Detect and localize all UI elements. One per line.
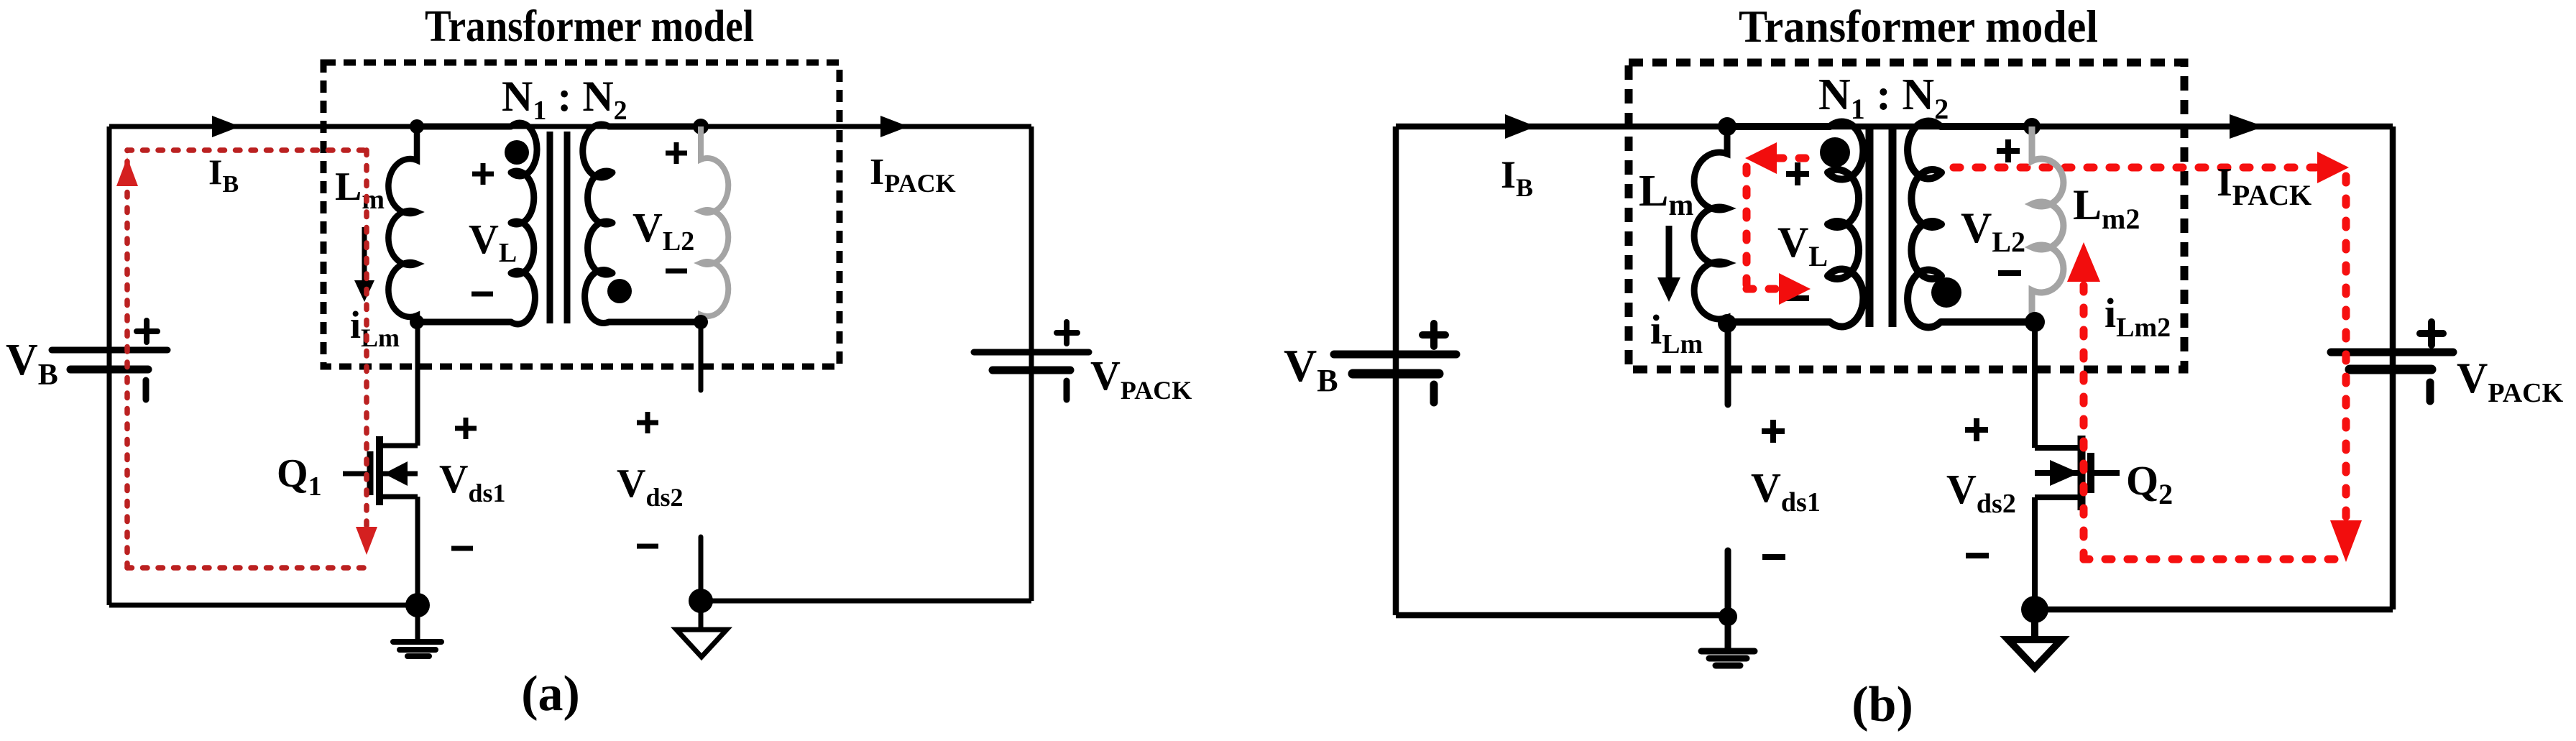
battery VPACK (a) plus sign xyxy=(1057,322,1077,344)
battery VPACK (a) minus tick xyxy=(1064,381,1070,400)
wire: Q2 drain vertical (b) xyxy=(2032,322,2038,448)
wire: top rail (b) xyxy=(1396,124,2393,130)
arrow iLm (b) xyxy=(1666,226,1673,279)
label + VL (b) xyxy=(1786,162,1809,185)
battery VB (b) minus tick xyxy=(1430,385,1438,402)
label + Vds2 (b) xyxy=(1965,418,1988,441)
wire: Vds2 upper stub (a) xyxy=(699,322,704,390)
wire: VPACK vertical (b) xyxy=(2390,126,2396,609)
label minus VL (b) xyxy=(1786,295,1809,301)
label minus VL2 (a) xyxy=(666,269,687,274)
wire: Q1 drain vertical (a) xyxy=(415,322,420,446)
node: secondary bottom (b) xyxy=(2025,312,2045,332)
svg-text:N1 : N2: N1 : N2 xyxy=(1818,70,1949,125)
transistor Q1 mosfet (a) xyxy=(343,436,418,505)
battery VB (a) plates xyxy=(52,350,167,369)
wire: VPACK vertical (a) xyxy=(1029,126,1034,601)
red dashed mini loop in primary (b) xyxy=(1747,158,1809,289)
label + VL (a) xyxy=(472,163,494,185)
ground (earth type) Q1 (a) xyxy=(393,605,441,656)
svg-text:Transformer model: Transformer model xyxy=(1739,1,2098,52)
svg-text:(a): (a) xyxy=(521,666,580,722)
dot: primary polarity (a) xyxy=(505,140,529,165)
arrow on Q2 body (b) xyxy=(2050,460,2079,486)
node: bottom primary junction (b) xyxy=(1718,314,1736,333)
red dashed secondary loop top segment (b) xyxy=(1954,164,2316,172)
dashed box: transformer model (b) xyxy=(1629,63,2184,369)
node: secondary top (a) xyxy=(693,119,709,134)
arrow iLm (a) xyxy=(362,227,367,282)
label minus Vds2 (a) xyxy=(637,544,658,549)
red arrow left in mini loop (b) xyxy=(1745,142,1777,174)
arrow IB (b) xyxy=(1505,114,1536,139)
red dashed secondary loop (b) xyxy=(2084,176,2346,559)
node: bottom primary junction (a) xyxy=(410,315,424,329)
wire: left vertical from VB (b) xyxy=(1393,126,1399,615)
wire: left vertical from VB (a) xyxy=(107,126,112,605)
battery VPACK (a) plates xyxy=(974,352,1089,370)
transformer core (b) xyxy=(1869,126,1892,327)
battery VPACK (b) plus sign xyxy=(2420,322,2443,345)
dot: secondary polarity (b) xyxy=(1931,277,1961,308)
node: Vds1 ground junction (b) xyxy=(1719,607,1737,626)
red arrow up near VB (a) xyxy=(116,157,138,186)
wire: bottom right rail (a) xyxy=(701,599,1031,604)
wire: Q2 source vertical (b) xyxy=(2032,497,2038,609)
gray magnetizing inductor Lm2 (b) xyxy=(2032,126,2064,322)
battery VB (b) plus sign xyxy=(1422,323,1445,346)
arrow IPACK (a) xyxy=(880,116,908,137)
dot: secondary polarity (a) xyxy=(607,279,632,303)
wire: top rail (a) xyxy=(109,124,1031,129)
transformer core (a) xyxy=(550,132,567,323)
transformer secondary winding N2 (a) xyxy=(583,124,701,323)
red arrow down right loop (b) xyxy=(2330,520,2362,562)
wire: Vds2 lower stub (a) xyxy=(699,537,704,601)
arrow IPACK (b) xyxy=(2230,114,2264,139)
red arrow right top loop (b) xyxy=(2317,152,2349,183)
node: top primary junction (b) xyxy=(1718,117,1736,136)
red arrow down near Q1 (a) xyxy=(356,527,377,555)
label + Vds1 (b) xyxy=(1762,420,1785,443)
transistor Q2 mosfet (b) xyxy=(2035,436,2120,510)
transformer secondary winding N2 (b) xyxy=(1908,121,2032,328)
arrow IB (a) xyxy=(212,116,240,137)
battery VB (a) minus tick xyxy=(143,380,149,400)
node: Q2 source ground junction (b) xyxy=(2021,596,2048,623)
dashed box: transformer model (a) xyxy=(323,63,839,367)
ground (earth type) (b) xyxy=(1701,617,1754,666)
label minus Vds1 (a) xyxy=(451,546,473,551)
wire: Q1 source vertical (a) xyxy=(415,497,420,605)
label minus VL2 (b) xyxy=(1998,270,2021,276)
label + VL2 (b) xyxy=(1997,139,2020,162)
label + Vds1 (a) xyxy=(455,418,477,439)
battery VB (a) plus sign xyxy=(137,321,157,342)
battery VPACK (b) minus tick xyxy=(2426,382,2434,401)
label minus Vds1 (b) xyxy=(1762,554,1785,560)
wire: bottom right rail (b) xyxy=(2035,607,2393,613)
node: secondary ground junction (a) xyxy=(689,589,713,613)
red arrow right in mini loop (b) xyxy=(1779,273,1811,305)
label + Vds2 (a) xyxy=(637,412,658,433)
transformer primary winding N1 (b) xyxy=(1727,121,1863,326)
node: secondary bottom (a) xyxy=(694,315,708,329)
label minus VL (a) xyxy=(471,292,493,297)
ground (arrow type) secondary (a) xyxy=(699,601,704,628)
wire: bottom left rail (a) xyxy=(109,603,418,608)
inductor Lm (a) xyxy=(388,126,417,322)
svg-text:N1 : N2: N1 : N2 xyxy=(502,73,627,126)
label minus Vds2 (b) xyxy=(1966,553,1989,558)
wire: Vds1 upper stub (b) xyxy=(1725,323,1731,405)
node: secondary top (b) xyxy=(2023,118,2041,135)
ground (arrow type) Q2 (b) xyxy=(2031,609,2038,637)
inductor Lm (b) xyxy=(1694,126,1727,323)
arrow on Q1 body (a) xyxy=(384,461,408,486)
battery VB (b) plates xyxy=(1334,354,1456,374)
svg-text:Transformer model: Transformer model xyxy=(425,2,754,51)
battery VPACK (b) plates xyxy=(2331,352,2453,369)
label + VL2 (a) xyxy=(666,142,687,164)
node: Q1 source ground junction (a) xyxy=(405,593,430,617)
node: top primary junction (a) xyxy=(410,119,424,134)
svg-text:(b): (b) xyxy=(1851,677,1913,732)
red dashed current loop (a) xyxy=(127,150,367,568)
dot: primary polarity (b) xyxy=(1820,137,1850,167)
wire: bottom left rail (b) xyxy=(1396,612,1728,619)
wire: Vds1 lower stub (b) xyxy=(1725,551,1731,615)
gray magnetizing inductor secondary (a) xyxy=(701,126,728,322)
transformer primary winding N1 (a) xyxy=(417,123,537,324)
red arrow up iLm2 (b) xyxy=(2067,242,2100,282)
